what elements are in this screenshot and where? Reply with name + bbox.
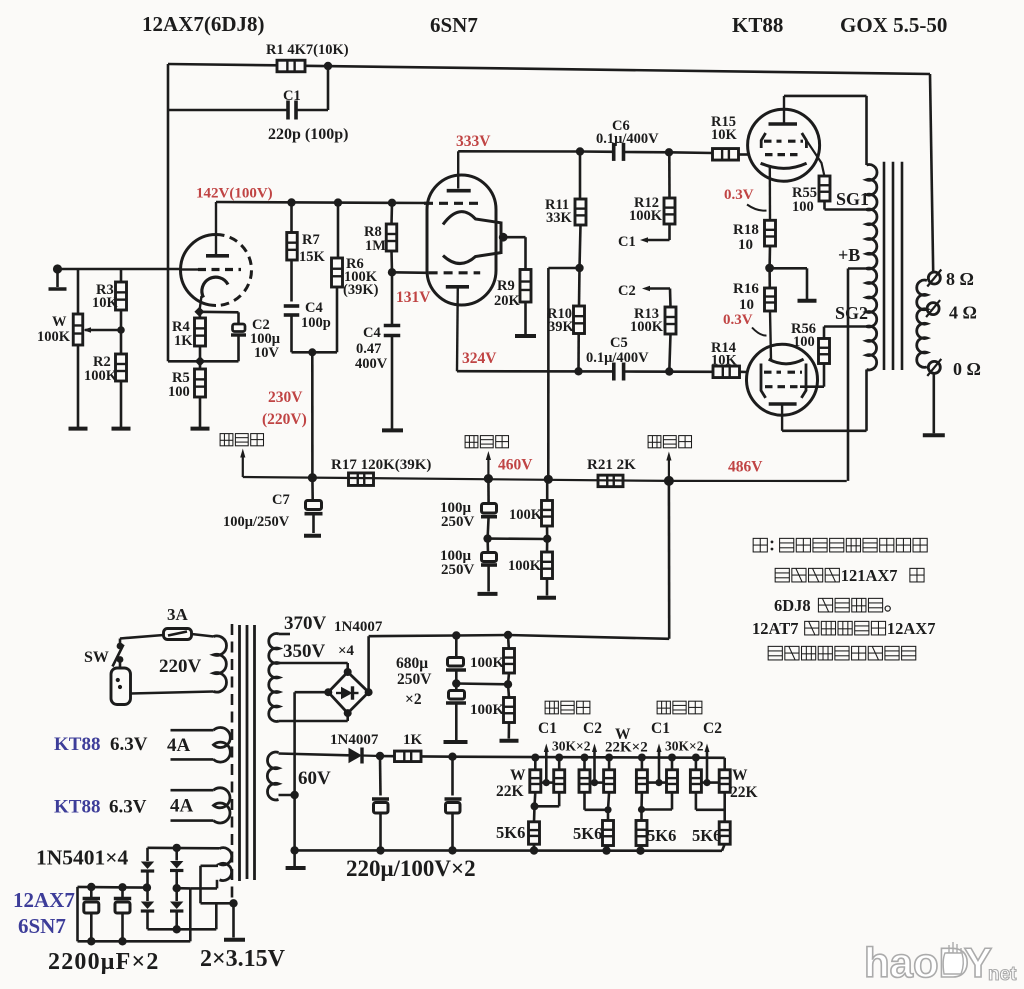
- svg-text:333V: 333V: [456, 133, 491, 150]
- svg-text:SG1: SG1: [836, 189, 869, 209]
- svg-text:4 Ω: 4 Ω: [949, 303, 977, 323]
- svg-text:0.47: 0.47: [356, 341, 381, 357]
- svg-text:30K×2: 30K×2: [665, 739, 704, 754]
- svg-text:R7: R7: [302, 232, 320, 248]
- svg-text:KT88: KT88: [732, 13, 783, 37]
- svg-text:+B: +B: [838, 245, 860, 265]
- svg-text:C2: C2: [703, 720, 722, 737]
- svg-text:0.3V: 0.3V: [723, 312, 753, 328]
- svg-text:W: W: [52, 314, 67, 330]
- svg-text:22K: 22K: [496, 783, 524, 800]
- svg-text:KT88: KT88: [54, 734, 100, 755]
- svg-text:10K: 10K: [711, 353, 738, 369]
- svg-text:100p: 100p: [301, 315, 331, 331]
- svg-text:680μ: 680μ: [396, 655, 428, 672]
- svg-text:324V: 324V: [462, 350, 497, 367]
- svg-text:5K6: 5K6: [692, 826, 721, 845]
- svg-text:5K6: 5K6: [496, 823, 525, 842]
- svg-text:1N4007: 1N4007: [334, 619, 383, 635]
- svg-text:C4: C4: [305, 300, 323, 316]
- svg-text:(220V): (220V): [262, 411, 307, 428]
- svg-text:100K: 100K: [630, 319, 664, 335]
- svg-text:R9: R9: [497, 278, 515, 294]
- svg-text:39K: 39K: [548, 319, 575, 335]
- svg-text:20K: 20K: [494, 293, 521, 309]
- svg-text:C7: C7: [272, 492, 290, 508]
- svg-text:350V: 350V: [283, 641, 326, 662]
- svg-text:R17 120K(39K): R17 120K(39K): [331, 457, 431, 473]
- svg-text:131V: 131V: [396, 289, 431, 306]
- svg-text:6.3V: 6.3V: [109, 797, 147, 818]
- svg-text:100K: 100K: [470, 655, 505, 671]
- svg-text:100: 100: [793, 334, 815, 350]
- svg-text:C1: C1: [618, 234, 636, 250]
- svg-text:C1: C1: [651, 720, 670, 737]
- svg-text:460V: 460V: [498, 457, 533, 474]
- svg-text:net: net: [988, 964, 1017, 985]
- svg-text:250V: 250V: [441, 562, 475, 578]
- svg-text:R21 2K: R21 2K: [587, 457, 636, 473]
- svg-text:KT88: KT88: [54, 797, 100, 818]
- svg-text:1K: 1K: [403, 732, 423, 748]
- svg-text:370V: 370V: [284, 613, 327, 634]
- svg-text:100: 100: [168, 384, 190, 400]
- svg-text:100K: 100K: [508, 558, 542, 574]
- svg-text:W: W: [510, 767, 526, 784]
- svg-text:5K6: 5K6: [573, 824, 602, 843]
- svg-text:12AT7: 12AT7: [752, 619, 798, 638]
- svg-text:SG2: SG2: [835, 303, 868, 323]
- svg-text:2200μF×2: 2200μF×2: [48, 949, 160, 975]
- svg-text:142V(100V): 142V(100V): [196, 186, 273, 202]
- svg-text:12AX7(6DJ8): 12AX7(6DJ8): [142, 12, 264, 36]
- svg-text:100K: 100K: [470, 702, 505, 718]
- svg-text:4A: 4A: [170, 796, 194, 817]
- svg-text:6.3V: 6.3V: [110, 734, 148, 755]
- svg-text:1N5401×4: 1N5401×4: [36, 846, 129, 870]
- svg-text:6DJ8: 6DJ8: [774, 596, 811, 615]
- svg-text:0 Ω: 0 Ω: [953, 359, 981, 379]
- svg-text:100K: 100K: [509, 507, 543, 523]
- svg-text:30K×2: 30K×2: [552, 739, 591, 754]
- svg-text:W: W: [732, 767, 748, 784]
- svg-text:SW: SW: [84, 649, 109, 666]
- svg-text:6SN7: 6SN7: [430, 13, 478, 37]
- svg-text:230V: 230V: [268, 389, 303, 406]
- svg-text:R18: R18: [733, 222, 759, 238]
- svg-text:C4: C4: [363, 325, 381, 341]
- svg-text:10: 10: [738, 237, 753, 253]
- svg-text:220μ/100V×2: 220μ/100V×2: [346, 856, 476, 881]
- svg-text:0.3V: 0.3V: [724, 187, 754, 203]
- svg-text:C1: C1: [283, 88, 301, 104]
- svg-text:250V: 250V: [441, 514, 475, 530]
- svg-text:×2: ×2: [405, 691, 422, 708]
- svg-text:220p (100p): 220p (100p): [268, 126, 348, 143]
- svg-text:1K: 1K: [174, 333, 193, 349]
- svg-text:22K: 22K: [730, 784, 758, 801]
- svg-text:12AX7: 12AX7: [887, 619, 936, 638]
- svg-text:C2: C2: [618, 283, 636, 299]
- svg-text:100μ/250V: 100μ/250V: [223, 514, 290, 530]
- svg-text:5K6: 5K6: [647, 826, 676, 845]
- svg-text:3A: 3A: [167, 605, 189, 624]
- svg-text:22K×2: 22K×2: [605, 740, 648, 756]
- svg-text:1M: 1M: [365, 238, 386, 254]
- svg-text:33K: 33K: [546, 210, 573, 226]
- svg-text:×4: ×4: [338, 643, 355, 659]
- svg-text:4A: 4A: [167, 735, 191, 756]
- svg-text:C5: C5: [610, 335, 628, 351]
- svg-text:60V: 60V: [298, 768, 331, 789]
- svg-text:6SN7: 6SN7: [18, 914, 66, 938]
- svg-text:100: 100: [792, 199, 814, 215]
- svg-text:100K: 100K: [37, 329, 71, 345]
- svg-text:0.1μ/400V: 0.1μ/400V: [586, 350, 649, 366]
- svg-text:0.1μ/400V: 0.1μ/400V: [596, 131, 659, 147]
- svg-text:C2: C2: [583, 720, 602, 737]
- svg-text:10K: 10K: [711, 127, 738, 143]
- svg-text:C1: C1: [538, 720, 557, 737]
- svg-text:250V: 250V: [397, 671, 432, 688]
- svg-text:12AX7: 12AX7: [13, 888, 75, 912]
- svg-text:121AX7: 121AX7: [841, 566, 898, 585]
- svg-text:(39K): (39K): [343, 282, 379, 298]
- svg-text:400V: 400V: [355, 356, 388, 372]
- svg-text:15K: 15K: [299, 249, 326, 265]
- svg-text:10: 10: [739, 297, 754, 313]
- svg-text:10V: 10V: [254, 345, 280, 361]
- svg-text:GOX 5.5-50: GOX 5.5-50: [840, 13, 947, 37]
- svg-text:486V: 486V: [728, 459, 763, 476]
- svg-text:R1 4K7(10K): R1 4K7(10K): [266, 42, 349, 58]
- svg-text:100K: 100K: [629, 208, 663, 224]
- svg-text:220V: 220V: [159, 656, 202, 677]
- svg-text:8 Ω: 8 Ω: [946, 269, 974, 289]
- svg-text:100K: 100K: [84, 368, 118, 384]
- svg-text:2×3.15V: 2×3.15V: [200, 946, 286, 972]
- svg-text:10K: 10K: [92, 295, 119, 311]
- svg-text:1N4007: 1N4007: [330, 732, 379, 748]
- svg-text:R16: R16: [733, 281, 759, 297]
